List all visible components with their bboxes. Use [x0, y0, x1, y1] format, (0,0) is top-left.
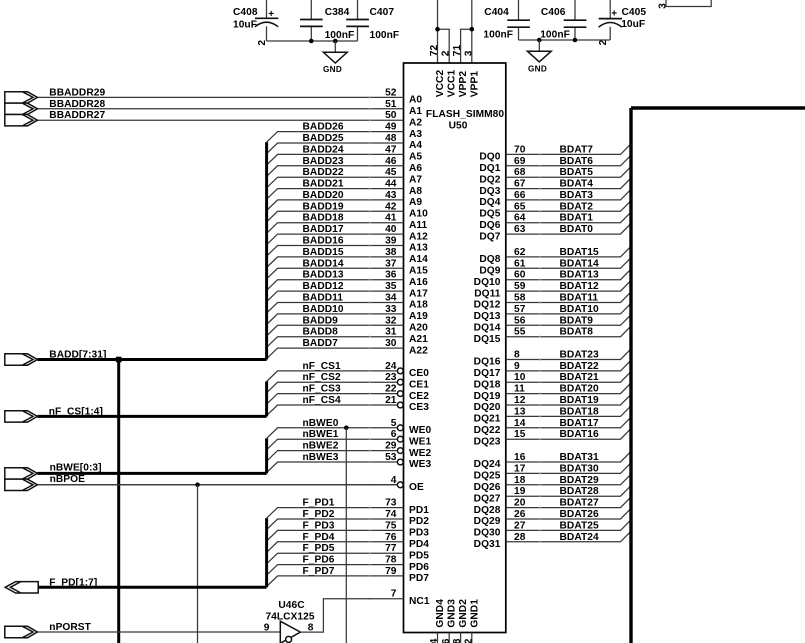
svg-text:51: 51 [385, 99, 397, 110]
svg-text:A3: A3 [409, 129, 422, 140]
svg-text:BADD17: BADD17 [303, 224, 344, 235]
pin DQ22 / pin number 14 / net BDAT17 [474, 417, 631, 436]
svg-text:21: 21 [385, 395, 397, 406]
svg-text:A5: A5 [409, 152, 422, 163]
pin A12 / pin number 40 / net BADD17 [267, 224, 429, 245]
svg-text:nBWE3: nBWE3 [303, 452, 339, 463]
svg-text:12: 12 [463, 638, 474, 643]
pin A1 / pin number 51 / net BBADDR28 [37, 99, 422, 117]
svg-text:GND2: GND2 [458, 599, 469, 628]
junction VCC pair [435, 27, 440, 32]
pin A18 / pin number 34 / net BADD11 [267, 293, 429, 314]
svg-text:33: 33 [385, 304, 397, 315]
svg-text:50: 50 [385, 110, 397, 121]
svg-text:66: 66 [514, 190, 526, 201]
svg-text:27: 27 [514, 520, 526, 531]
svg-text:2: 2 [257, 40, 268, 46]
svg-text:BDAT19: BDAT19 [560, 395, 599, 406]
bus BADD[7:31] horizontal [37, 358, 266, 361]
svg-text:7: 7 [391, 589, 397, 600]
svg-text:F_PD7: F_PD7 [303, 566, 335, 577]
svg-text:10uF: 10uF [621, 19, 645, 30]
pin DQ25 / pin number 17 / net BDAT30 [474, 463, 631, 482]
pin DQ24 / pin number 16 / net BDAT31 [474, 451, 631, 470]
svg-text:BDAT9: BDAT9 [560, 315, 594, 326]
pin A15 / pin number 37 / net BADD14 [267, 258, 429, 279]
IC U50 FLASH_SIMM80 body [404, 63, 506, 633]
wire top right stub pin 3 [666, 0, 711, 7]
svg-text:A21: A21 [409, 334, 428, 345]
svg-text:A1: A1 [409, 106, 422, 117]
pin DQ8 / pin number 62 / net BDAT15 [479, 246, 631, 265]
svg-text:PD5: PD5 [409, 550, 429, 561]
svg-text:BDAT8: BDAT8 [560, 327, 594, 338]
svg-text:DQ18: DQ18 [474, 379, 501, 390]
svg-text:+: + [611, 8, 617, 19]
svg-text:70: 70 [514, 144, 526, 155]
wire nBPOE [37, 484, 397, 486]
bus BDAT vertical [629, 108, 632, 643]
pin NC1 / pin number 7 [369, 589, 430, 607]
pin PD5 / pin number 77 / net F_PD5 [267, 543, 430, 564]
junction gnd tap right [537, 38, 542, 43]
svg-text:VPP1: VPP1 [469, 71, 480, 98]
pin DQ3 / pin number 67 / net BDAT4 [479, 178, 631, 197]
svg-text:52: 52 [385, 87, 397, 98]
svg-text:A15: A15 [409, 266, 428, 277]
svg-text:PD6: PD6 [409, 562, 429, 573]
bus nBWE[0:3] horizontal [37, 472, 266, 475]
bus BDAT horizontal top [631, 106, 805, 109]
pin PD2 / pin number 74 / net F_PD2 [267, 509, 430, 530]
pin A8 / pin number 44 / net BADD21 [267, 179, 423, 200]
svg-text:BDAT3: BDAT3 [560, 190, 594, 201]
svg-text:DQ31: DQ31 [474, 539, 501, 550]
pin A13 / pin number 39 / net BADD16 [267, 236, 429, 257]
svg-text:BDAT22: BDAT22 [560, 361, 599, 372]
svg-text:68: 68 [514, 167, 526, 178]
svg-text:BADD15: BADD15 [303, 247, 344, 258]
svg-text:DQ24: DQ24 [474, 459, 501, 470]
svg-text:CE1: CE1 [409, 379, 429, 390]
svg-text:65: 65 [514, 201, 526, 212]
svg-text:BADD13: BADD13 [303, 270, 344, 281]
bus nBWE vertical riser [265, 438, 268, 473]
svg-text:WE2: WE2 [409, 448, 432, 459]
pin A16 / pin number 36 / net BADD13 [267, 270, 429, 291]
pin A3 / pin number 49 / net BADD26 [267, 122, 423, 143]
svg-text:GND4: GND4 [435, 599, 446, 628]
svg-text:A0: A0 [409, 95, 422, 106]
wire nPORST [37, 631, 280, 633]
svg-text:F_PD4: F_PD4 [303, 532, 335, 543]
svg-text:DQ7: DQ7 [479, 231, 500, 242]
svg-text:18: 18 [452, 638, 463, 643]
wire GND4 pin stub bottom [437, 633, 439, 643]
wire VPP1 pin 3 [471, 0, 473, 63]
junction bus BADD [116, 357, 122, 363]
svg-text:BADD8: BADD8 [303, 327, 339, 338]
svg-text:A17: A17 [409, 288, 428, 299]
svg-text:24: 24 [385, 361, 397, 372]
pin DQ13 / pin number 57 / net BDAT10 [474, 303, 631, 322]
pin CE2 / pin number 22 / net nF_CS3 [267, 384, 430, 405]
wire gnd rail right cap group [519, 39, 611, 41]
pin DQ7 / pin number 63 / net BDAT0 [479, 224, 631, 243]
svg-text:+: + [268, 9, 274, 20]
svg-text:NC1: NC1 [409, 596, 430, 607]
pin DQ2 / pin number 68 / net BDAT5 [479, 167, 631, 186]
svg-text:VPP2: VPP2 [458, 71, 469, 98]
svg-text:76: 76 [385, 532, 397, 543]
junction nBPOE dropper [195, 483, 200, 488]
wire GND2 pin stub bottom [460, 633, 462, 643]
svg-text:U46C: U46C [278, 600, 305, 611]
svg-text:26: 26 [514, 509, 526, 520]
svg-text:36: 36 [385, 270, 397, 281]
svg-text:DQ12: DQ12 [474, 300, 501, 311]
pin A7 / pin number 45 / net BADD22 [267, 167, 423, 188]
svg-text:DQ10: DQ10 [474, 277, 501, 288]
svg-text:nBWE1: nBWE1 [303, 429, 339, 440]
svg-text:72: 72 [429, 44, 440, 56]
svg-text:9: 9 [514, 361, 520, 372]
pin PD4 / pin number 76 / net F_PD4 [267, 532, 430, 553]
svg-text:nBPOE: nBPOE [50, 474, 85, 485]
svg-text:BADD20: BADD20 [303, 190, 344, 201]
svg-text:A19: A19 [409, 311, 428, 322]
svg-text:BDAT17: BDAT17 [560, 418, 599, 429]
svg-text:DQ20: DQ20 [474, 402, 501, 413]
svg-text:OE: OE [409, 482, 424, 493]
pin DQ12 / pin number 58 / net BDAT11 [474, 292, 631, 311]
pin A10 / pin number 42 / net BADD19 [267, 201, 429, 222]
svg-text:59: 59 [514, 281, 526, 292]
svg-text:60: 60 [514, 270, 526, 281]
junction VPP pair [470, 27, 475, 32]
svg-text:13: 13 [514, 406, 526, 417]
svg-text:100nF: 100nF [325, 30, 355, 41]
pin CE1 / pin number 23 / net nF_CS2 [267, 372, 430, 393]
svg-text:DQ19: DQ19 [474, 391, 501, 402]
svg-text:11: 11 [514, 384, 525, 395]
svg-text:9: 9 [264, 623, 270, 634]
pin DQ27 / pin number 19 / net BDAT28 [474, 486, 631, 505]
svg-text:3: 3 [463, 50, 474, 56]
svg-text:36: 36 [441, 638, 452, 643]
ground symbol left [323, 41, 347, 74]
svg-text:nF_CS1: nF_CS1 [303, 361, 342, 372]
pin PD1 / pin number 73 / net F_PD1 [267, 498, 430, 519]
port BBADDR29 [5, 92, 38, 103]
svg-text:BADD10: BADD10 [303, 304, 344, 315]
svg-text:18: 18 [514, 475, 526, 486]
pin DQ15 / pin number 55 / net BDAT8 [474, 326, 631, 345]
svg-text:BDAT14: BDAT14 [560, 258, 599, 269]
svg-text:F_PD5: F_PD5 [303, 543, 335, 554]
junction nBWE0 dropper [344, 426, 349, 431]
svg-text:4: 4 [391, 475, 397, 486]
pin A5 / pin number 47 / net BADD24 [267, 144, 423, 165]
svg-text:F_PD6: F_PD6 [303, 555, 335, 566]
pin DQ10 / pin number 60 / net BDAT13 [474, 269, 631, 288]
svg-text:48: 48 [385, 133, 397, 144]
svg-text:A8: A8 [409, 186, 422, 197]
svg-text:16: 16 [514, 452, 526, 463]
svg-text:F_PD3: F_PD3 [303, 520, 335, 531]
svg-text:C405: C405 [622, 7, 647, 18]
svg-text:WE1: WE1 [409, 436, 432, 447]
pin DQ20 / pin number 12 / net BDAT19 [474, 394, 631, 413]
svg-text:31: 31 [385, 327, 397, 338]
svg-text:39: 39 [385, 236, 397, 247]
bus nF_CS[1:4] horizontal [37, 415, 266, 418]
svg-text:BDAT2: BDAT2 [560, 201, 594, 212]
svg-text:30: 30 [385, 338, 397, 349]
pin A11 / pin number 41 / net BADD18 [267, 213, 428, 234]
pin WE3 / pin number 53 / net nBWE3 [267, 452, 432, 473]
svg-text:DQ2: DQ2 [479, 174, 500, 185]
svg-text:DQ26: DQ26 [474, 482, 501, 493]
svg-text:45: 45 [385, 167, 397, 178]
svg-text:C408: C408 [233, 7, 258, 18]
wire VCC1 pin 2 elbow [438, 29, 450, 63]
pin DQ14 / pin number 56 / net BDAT9 [474, 315, 631, 334]
wire gnd rail left cap group [267, 40, 358, 42]
svg-text:BADD9: BADD9 [303, 315, 339, 326]
svg-text:35: 35 [385, 281, 397, 292]
bus F_PD vertical riser [265, 518, 268, 587]
svg-text:19: 19 [514, 486, 526, 497]
svg-text:22: 22 [385, 384, 397, 395]
svg-text:BBADDR29: BBADDR29 [49, 87, 105, 98]
svg-text:WE0: WE0 [409, 425, 432, 436]
svg-text:53: 53 [385, 452, 397, 463]
svg-text:BBADDR27: BBADDR27 [49, 110, 105, 121]
svg-text:PD2: PD2 [409, 516, 429, 527]
pin A21 / pin number 31 / net BADD8 [267, 327, 429, 348]
pin DQ26 / pin number 18 / net BDAT29 [474, 474, 631, 493]
svg-text:100nF: 100nF [483, 30, 513, 41]
svg-text:14: 14 [514, 418, 526, 429]
svg-text:15: 15 [514, 429, 526, 440]
svg-text:BDAT6: BDAT6 [560, 156, 594, 167]
pin DQ9 / pin number 61 / net BDAT14 [479, 258, 631, 277]
port nBWE[0:3] [5, 468, 38, 479]
ground symbol right [527, 40, 551, 74]
svg-text:BDAT26: BDAT26 [560, 509, 599, 520]
svg-text:BDAT15: BDAT15 [560, 247, 599, 258]
pin WE1 / pin number 6 / net nBWE1 [267, 429, 432, 450]
svg-text:DQ0: DQ0 [479, 152, 500, 163]
svg-text:DQ11: DQ11 [474, 288, 501, 299]
capacitor C406 [540, 0, 586, 41]
svg-text:BDAT11: BDAT11 [560, 293, 599, 304]
svg-text:C384: C384 [325, 7, 350, 18]
svg-text:46: 46 [385, 156, 397, 167]
svg-text:12: 12 [514, 395, 526, 406]
svg-text:DQ16: DQ16 [474, 357, 501, 368]
svg-text:F_PD2: F_PD2 [303, 509, 335, 520]
wire nBPOE vertical dropper [197, 485, 199, 643]
svg-text:WE3: WE3 [409, 459, 432, 470]
svg-text:47: 47 [385, 144, 397, 155]
svg-text:71: 71 [452, 44, 463, 56]
svg-text:A7: A7 [409, 174, 422, 185]
svg-text:GND: GND [528, 65, 547, 74]
svg-text:BDAT31: BDAT31 [560, 452, 599, 463]
svg-text:20: 20 [514, 498, 526, 509]
wire buffer output to NC1 [300, 599, 403, 632]
svg-text:VCC1: VCC1 [447, 70, 458, 98]
pin DQ19 / pin number 11 / net BDAT20 [474, 383, 631, 402]
pin A0 / pin number 52 / net BBADDR29 [37, 87, 422, 105]
svg-text:DQ23: DQ23 [474, 436, 501, 447]
svg-text:BDAT29: BDAT29 [560, 475, 599, 486]
svg-text:67: 67 [514, 179, 526, 190]
svg-text:BADD[7:31]: BADD[7:31] [49, 350, 106, 361]
pin A20 / pin number 32 / net BADD9 [267, 315, 429, 336]
svg-text:DQ8: DQ8 [479, 254, 500, 265]
svg-text:A14: A14 [409, 254, 428, 265]
svg-text:DQ27: DQ27 [474, 493, 501, 504]
svg-text:nF_CS3: nF_CS3 [303, 384, 342, 395]
svg-text:A9: A9 [409, 197, 422, 208]
svg-text:DQ6: DQ6 [479, 220, 500, 231]
capacitor C384 [300, 0, 354, 41]
svg-text:54: 54 [429, 638, 440, 643]
svg-text:nF_CS2: nF_CS2 [303, 372, 342, 383]
pin PD7 / pin number 79 / net F_PD7 [267, 566, 430, 587]
svg-text:69: 69 [514, 156, 526, 167]
svg-text:49: 49 [385, 122, 397, 133]
svg-text:BDAT25: BDAT25 [560, 520, 599, 531]
svg-text:40: 40 [385, 224, 397, 235]
pin A14 / pin number 38 / net BADD15 [267, 247, 429, 268]
pin DQ17 / pin number 9 / net BDAT22 [474, 360, 631, 379]
wire VPP2 pin 71 elbow [461, 29, 472, 63]
svg-text:BADD18: BADD18 [303, 213, 344, 224]
svg-text:BADD14: BADD14 [303, 258, 344, 269]
svg-text:63: 63 [514, 224, 526, 235]
pin DQ30 / pin number 27 / net BDAT25 [474, 520, 631, 539]
svg-text:74: 74 [385, 509, 397, 520]
svg-text:BADD25: BADD25 [303, 133, 344, 144]
svg-text:PD7: PD7 [409, 573, 429, 584]
svg-text:74LCX125: 74LCX125 [265, 611, 314, 622]
svg-text:F_PD[1:7]: F_PD[1:7] [49, 577, 97, 588]
svg-text:42: 42 [385, 201, 397, 212]
svg-text:CE2: CE2 [409, 391, 429, 402]
pin A2 / pin number 50 / net BBADDR27 [37, 110, 422, 128]
svg-text:34: 34 [385, 293, 397, 304]
svg-text:41: 41 [385, 213, 397, 224]
pin DQ28 / pin number 20 / net BDAT27 [474, 497, 631, 516]
pin DQ21 / pin number 13 / net BDAT18 [474, 406, 631, 425]
svg-text:5: 5 [391, 418, 397, 429]
svg-text:64: 64 [514, 213, 526, 224]
svg-text:BDAT13: BDAT13 [560, 270, 599, 281]
svg-text:3: 3 [658, 3, 669, 9]
svg-text:10: 10 [514, 372, 526, 383]
svg-text:DQ17: DQ17 [474, 368, 501, 379]
svg-text:43: 43 [385, 190, 397, 201]
junction C384 to rail [309, 39, 314, 44]
svg-text:U50: U50 [449, 120, 468, 131]
svg-text:BDAT21: BDAT21 [560, 372, 599, 383]
svg-text:BBADDR28: BBADDR28 [49, 99, 105, 110]
port nBPOE [5, 479, 38, 490]
svg-text:17: 17 [514, 463, 526, 474]
svg-text:BADD21: BADD21 [303, 179, 344, 190]
svg-text:BADD23: BADD23 [303, 156, 344, 167]
svg-text:A4: A4 [409, 140, 422, 151]
svg-text:BDAT16: BDAT16 [560, 429, 599, 440]
svg-text:BADD24: BADD24 [303, 144, 344, 155]
svg-text:62: 62 [514, 247, 526, 258]
svg-text:58: 58 [514, 293, 526, 304]
port BADD[7:31] [5, 354, 38, 365]
svg-text:DQ30: DQ30 [474, 528, 501, 539]
svg-text:61: 61 [514, 258, 526, 269]
svg-text:DQ29: DQ29 [474, 516, 501, 527]
svg-text:BADD11: BADD11 [303, 293, 344, 304]
svg-text:A20: A20 [409, 323, 428, 334]
svg-text:10uF: 10uF [233, 20, 257, 31]
svg-text:37: 37 [385, 258, 397, 269]
svg-text:DQ15: DQ15 [474, 334, 501, 345]
svg-text:78: 78 [385, 555, 397, 566]
pin A4 / pin number 48 / net BADD25 [267, 133, 423, 154]
pin A22 / pin number 30 / net BADD7 [267, 338, 429, 359]
pin CE3 / pin number 21 / net nF_CS4 [267, 395, 430, 416]
svg-text:2: 2 [441, 50, 452, 56]
svg-text:38: 38 [385, 247, 397, 258]
svg-text:BDAT23: BDAT23 [560, 350, 599, 361]
pin DQ5 / pin number 65 / net BDAT2 [479, 201, 631, 220]
svg-text:56: 56 [514, 315, 526, 326]
svg-text:CE3: CE3 [409, 402, 429, 413]
pin DQ16 / pin number 8 / net BDAT23 [474, 349, 631, 368]
svg-text:A11: A11 [409, 220, 428, 231]
svg-text:55: 55 [514, 327, 526, 338]
pin A19 / pin number 33 / net BADD10 [267, 304, 429, 325]
pin DQ18 / pin number 10 / net BDAT21 [474, 372, 631, 391]
svg-text:nBWE[0:3]: nBWE[0:3] [50, 462, 102, 473]
pin CE0 / pin number 24 / net nF_CS1 [267, 361, 430, 382]
svg-text:GND1: GND1 [469, 599, 480, 628]
junction gnd tap left [333, 39, 338, 44]
svg-text:A18: A18 [409, 300, 428, 311]
capacitor C408 [233, 0, 278, 41]
buffer U46C 74LCX125 [265, 600, 314, 643]
svg-text:DQ4: DQ4 [479, 197, 500, 208]
svg-text:DQ21: DQ21 [474, 414, 501, 425]
port BBADDR28 [5, 103, 38, 114]
svg-text:nPORST: nPORST [49, 622, 91, 633]
svg-text:BDAT10: BDAT10 [560, 304, 599, 315]
wire GND3 pin stub bottom [448, 633, 450, 643]
svg-text:C406: C406 [541, 7, 566, 18]
bus BADD vertical riser [265, 142, 268, 359]
svg-text:DQ22: DQ22 [474, 425, 501, 436]
svg-text:BDAT30: BDAT30 [560, 463, 599, 474]
bus BADD vertical drop [117, 360, 120, 643]
pin DQ0 / pin number 70 / net BDAT7 [479, 144, 631, 163]
svg-text:A2: A2 [409, 117, 422, 128]
svg-text:BDAT4: BDAT4 [560, 179, 594, 190]
svg-text:6: 6 [391, 429, 397, 440]
